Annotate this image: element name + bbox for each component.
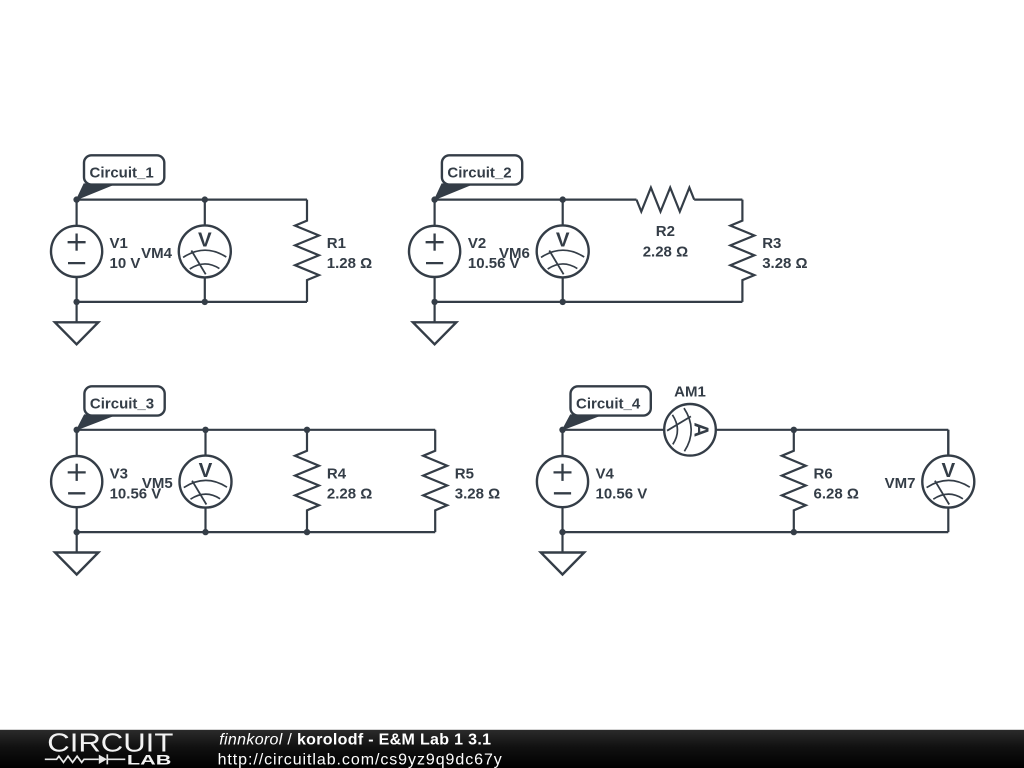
svg-text:A: A xyxy=(690,422,713,437)
wire c1 top xyxy=(77,199,307,201)
node c4 R6 bottom xyxy=(791,529,797,535)
wire c4 top left xyxy=(563,429,665,431)
wire c4 top right xyxy=(716,429,949,431)
svg-text:VM4: VM4 xyxy=(141,245,173,262)
svg-text:Circuit_3: Circuit_3 xyxy=(90,396,154,413)
footer bar xyxy=(0,730,1024,768)
wire c3 top xyxy=(77,429,436,431)
node c3 meter top xyxy=(202,427,208,433)
node c3 R4 top xyxy=(304,427,310,433)
voltmeter VM5 xyxy=(180,430,232,532)
logo diode triangle xyxy=(99,755,107,764)
resistor R2 body xyxy=(637,188,695,212)
svg-text:VM6: VM6 xyxy=(499,245,530,262)
wire c4 right drop xyxy=(947,430,949,455)
svg-text:R5: R5 xyxy=(455,466,474,483)
node c2 source bottom xyxy=(431,299,437,305)
node c3 source bottom xyxy=(74,529,80,535)
svg-text:LAB: LAB xyxy=(127,753,172,768)
voltmeter VM7 xyxy=(922,430,974,532)
node c2 meter top xyxy=(560,196,566,202)
wire c4 bottom xyxy=(563,531,949,533)
svg-text:3.28 Ω: 3.28 Ω xyxy=(455,486,500,503)
voltmeter VM4 xyxy=(179,200,231,302)
node c2 source top xyxy=(431,196,437,202)
svg-text:http://circuitlab.com/cs9yz9q9: http://circuitlab.com/cs9yz9q9dc67y xyxy=(218,752,503,768)
svg-text:Circuit_2: Circuit_2 xyxy=(447,165,511,182)
voltage source V3 xyxy=(51,430,102,532)
node c2 meter bottom xyxy=(560,299,566,305)
node c3 source top xyxy=(74,427,80,433)
resistor R5 body xyxy=(423,430,447,532)
svg-text:V3: V3 xyxy=(110,466,128,483)
voltmeter VM6 xyxy=(537,200,589,302)
node c1 source bottom xyxy=(73,299,79,305)
wire c2 bottom xyxy=(435,301,743,303)
voltage source V2 xyxy=(409,200,460,302)
node c1 source top xyxy=(73,196,79,202)
resistor R4 body xyxy=(295,430,319,532)
svg-text:Circuit_1: Circuit_1 xyxy=(90,165,154,182)
svg-text:R2: R2 xyxy=(656,223,675,240)
node label Circuit_3 flag xyxy=(77,415,116,430)
ground GND c2 xyxy=(413,302,456,344)
svg-text:VM7: VM7 xyxy=(885,475,916,492)
node label Circuit_4 flag xyxy=(563,415,602,430)
svg-text:R4: R4 xyxy=(327,466,347,483)
svg-text:V2: V2 xyxy=(468,235,486,252)
wire c1 bottom xyxy=(77,301,307,303)
svg-text:V: V xyxy=(556,229,570,252)
svg-text:V: V xyxy=(198,229,212,252)
resistor R3 body xyxy=(730,200,754,302)
svg-text:6.28 Ω: 6.28 Ω xyxy=(814,486,859,503)
svg-text:V: V xyxy=(941,459,955,482)
ground GND c1 xyxy=(55,302,98,344)
svg-text:2.28 Ω: 2.28 Ω xyxy=(327,486,372,503)
resistor R1 body xyxy=(295,200,319,302)
svg-text:R1: R1 xyxy=(327,235,346,252)
wire c3 bottom xyxy=(77,531,436,533)
node c4 R6 top xyxy=(791,427,797,433)
svg-text:1.28 Ω: 1.28 Ω xyxy=(327,255,372,272)
ground GND c4 xyxy=(541,532,584,574)
node c1 meter top xyxy=(202,196,208,202)
svg-text:10.56 V: 10.56 V xyxy=(596,486,648,503)
svg-text:2.28 Ω: 2.28 Ω xyxy=(643,243,688,260)
svg-text:VM5: VM5 xyxy=(142,475,173,492)
ammeter AM1 xyxy=(664,404,716,456)
node c3 meter bottom xyxy=(202,529,208,535)
node label Circuit_1 flag xyxy=(77,184,115,200)
svg-text:10 V: 10 V xyxy=(110,255,141,272)
logo resistor-diode symbol xyxy=(45,754,126,764)
svg-text:3.28 Ω: 3.28 Ω xyxy=(762,255,807,272)
svg-text:Circuit_4: Circuit_4 xyxy=(576,396,641,413)
ground GND c3 xyxy=(55,532,98,574)
svg-text:V: V xyxy=(199,459,213,482)
wire c2 top left xyxy=(435,199,637,201)
svg-text:finnkorol / korolodf - E&M Lab: finnkorol / korolodf - E&M Lab 1 3.1 xyxy=(219,731,491,748)
wire c2 top right xyxy=(694,199,742,201)
resistor R6 body xyxy=(782,430,806,532)
svg-text:R6: R6 xyxy=(814,466,833,483)
node c4 source bottom xyxy=(559,529,565,535)
node c4 source top xyxy=(559,427,565,433)
svg-text:AM1: AM1 xyxy=(674,384,706,401)
voltage source V4 xyxy=(537,430,588,532)
svg-text:V4: V4 xyxy=(596,466,615,483)
voltage source V1 xyxy=(51,200,102,302)
node label Circuit_2 flag xyxy=(435,184,473,200)
node c3 R4 bottom xyxy=(304,529,310,535)
node c1 meter bottom xyxy=(202,299,208,305)
svg-text:V1: V1 xyxy=(110,235,128,252)
svg-text:R3: R3 xyxy=(762,235,781,252)
